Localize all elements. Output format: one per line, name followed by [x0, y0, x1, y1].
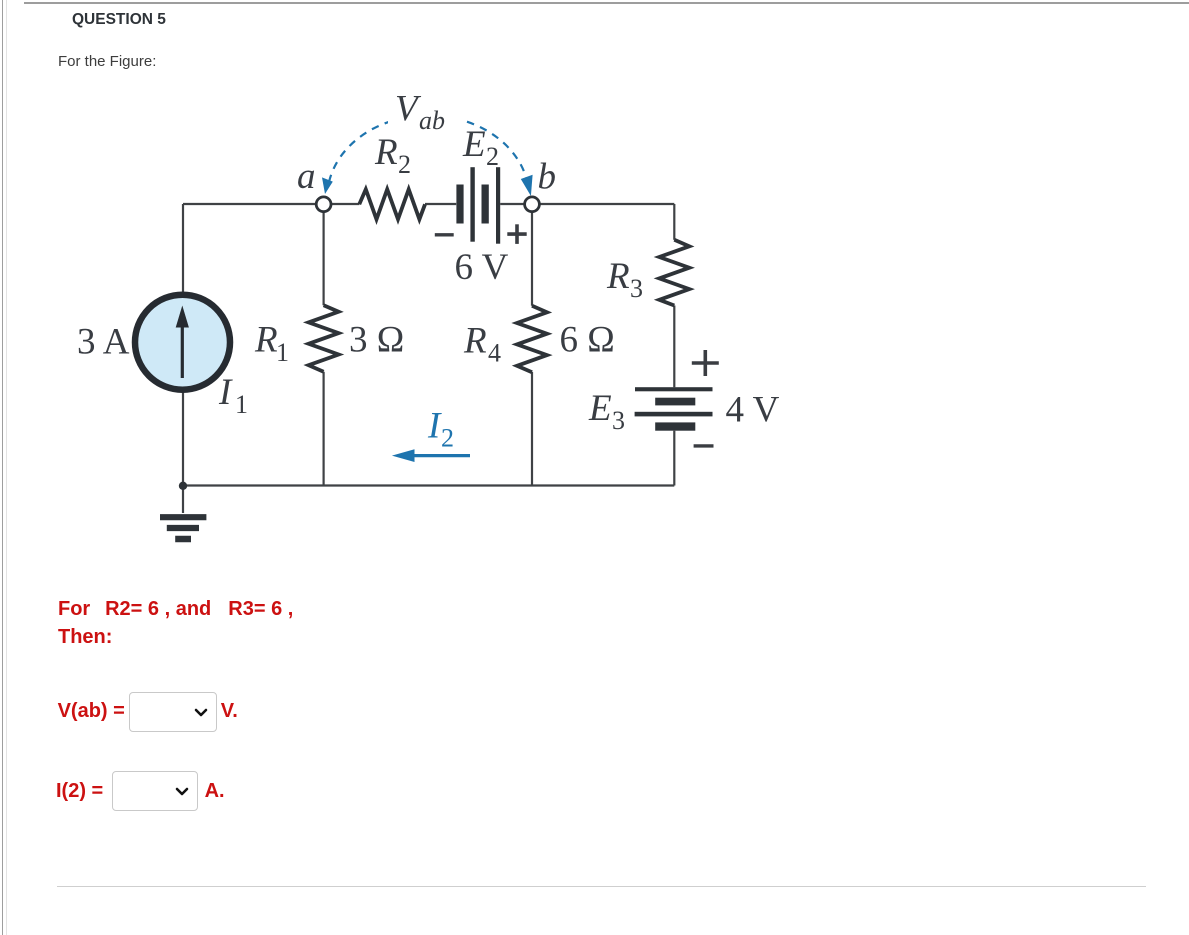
- svg-text:2: 2: [441, 424, 454, 453]
- svg-text:1: 1: [276, 338, 289, 367]
- svg-text:4 V: 4 V: [726, 390, 780, 431]
- svg-text:a: a: [297, 156, 316, 197]
- svg-text:3 Ω: 3 Ω: [349, 320, 404, 361]
- svg-text:R: R: [606, 256, 630, 297]
- svg-text:3: 3: [612, 406, 625, 435]
- svg-text:R: R: [374, 132, 398, 173]
- svg-text:I: I: [427, 406, 442, 447]
- svg-text:R: R: [463, 320, 487, 361]
- svg-text:3: 3: [630, 274, 643, 303]
- svg-text:4: 4: [488, 339, 501, 368]
- svg-text:2: 2: [398, 150, 411, 179]
- svg-text:E: E: [462, 124, 486, 165]
- svg-text:6 Ω: 6 Ω: [560, 320, 615, 361]
- svg-text:b: b: [538, 157, 557, 198]
- svg-text:ab: ab: [419, 106, 445, 135]
- svg-text:E: E: [588, 388, 612, 429]
- svg-text:6 V: 6 V: [455, 247, 509, 288]
- svg-text:R: R: [254, 320, 278, 361]
- svg-text:1: 1: [235, 390, 248, 419]
- svg-text:2: 2: [486, 142, 499, 171]
- svg-text:3 A: 3 A: [77, 322, 130, 363]
- svg-text:I: I: [218, 372, 233, 413]
